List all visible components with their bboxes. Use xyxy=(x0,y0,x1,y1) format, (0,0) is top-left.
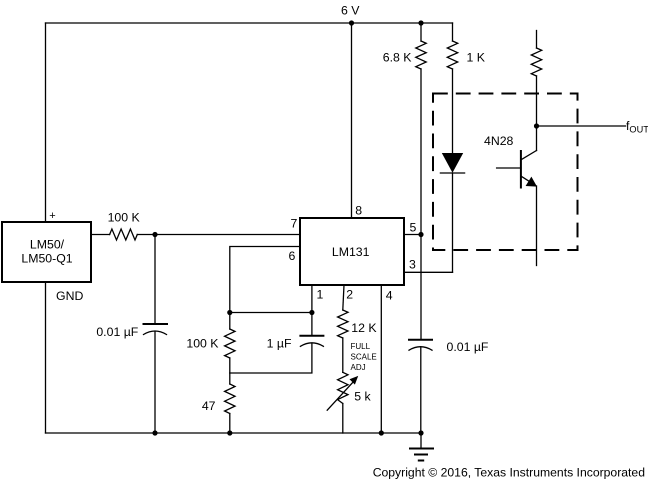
svg-text:1 K: 1 K xyxy=(467,50,486,64)
svg-text:LM50/: LM50/ xyxy=(30,238,65,252)
svg-text:100 K: 100 K xyxy=(108,211,141,225)
svg-text:LM131: LM131 xyxy=(332,245,370,259)
svg-text:SCALE: SCALE xyxy=(351,352,377,361)
svg-text:LM50-Q1: LM50-Q1 xyxy=(21,252,72,266)
svg-text:1: 1 xyxy=(317,287,324,301)
svg-text:FULL: FULL xyxy=(351,342,371,351)
svg-text:4: 4 xyxy=(386,289,393,303)
svg-text:5: 5 xyxy=(410,221,417,235)
svg-text:0.01 µF: 0.01 µF xyxy=(447,340,489,354)
svg-text:5 k: 5 k xyxy=(354,390,371,404)
svg-text:fOUT: fOUT xyxy=(626,119,648,135)
svg-text:Copyright © 2016, Texas Instru: Copyright © 2016, Texas Instruments Inco… xyxy=(373,465,645,479)
svg-text:1 µF: 1 µF xyxy=(267,337,292,351)
svg-text:12 K: 12 K xyxy=(351,321,377,335)
svg-text:0.01 µF: 0.01 µF xyxy=(96,325,138,339)
svg-text:7: 7 xyxy=(291,217,298,231)
svg-text:47: 47 xyxy=(202,399,216,413)
svg-text:6.8 K: 6.8 K xyxy=(383,50,413,64)
svg-text:6 V: 6 V xyxy=(341,3,360,17)
svg-text:2: 2 xyxy=(346,288,353,302)
svg-text:4N28: 4N28 xyxy=(484,134,514,148)
svg-text:GND: GND xyxy=(56,289,83,303)
svg-text:3: 3 xyxy=(409,258,416,272)
svg-text:ADJ: ADJ xyxy=(351,363,366,372)
svg-text:+: + xyxy=(49,210,55,222)
svg-text:6: 6 xyxy=(289,249,296,263)
svg-text:8: 8 xyxy=(355,203,362,217)
svg-text:100 K: 100 K xyxy=(186,337,219,351)
